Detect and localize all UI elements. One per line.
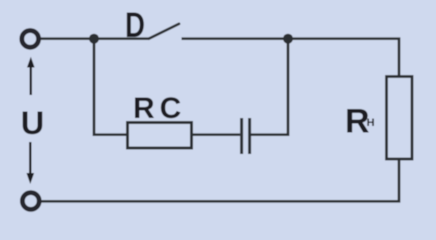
terminal top-left [22,31,39,48]
resistor R C [128,123,192,149]
switch D (blade) [149,24,179,39]
wire: top rail right segment with corner down to Rн [182,39,400,77]
arrow down (toward bottom terminal) [29,142,31,174]
node junction left [89,34,99,44]
wire: top rail left segment (terminal to switch) [40,37,149,40]
capacitor C (right plate) [248,118,251,154]
node junction right [283,34,293,44]
terminal bottom-left [22,193,39,210]
wire: Rн bottom to bottom rail back to terminal [41,159,399,201]
svg-text:RC: RC [133,92,186,125]
arrow up (toward top terminal) [30,67,32,96]
svg-text:D: D [125,6,145,45]
wire: left drop of RC branch [94,39,127,135]
capacitor C (left plate) [240,118,243,154]
wire: capacitor to right riser, up to top rail [251,39,288,135]
svg-text:Н: Н [367,117,375,129]
wire: resistor to capacitor [193,133,240,136]
svg-text:U: U [21,105,44,141]
resistor Rн (load) [387,77,413,160]
